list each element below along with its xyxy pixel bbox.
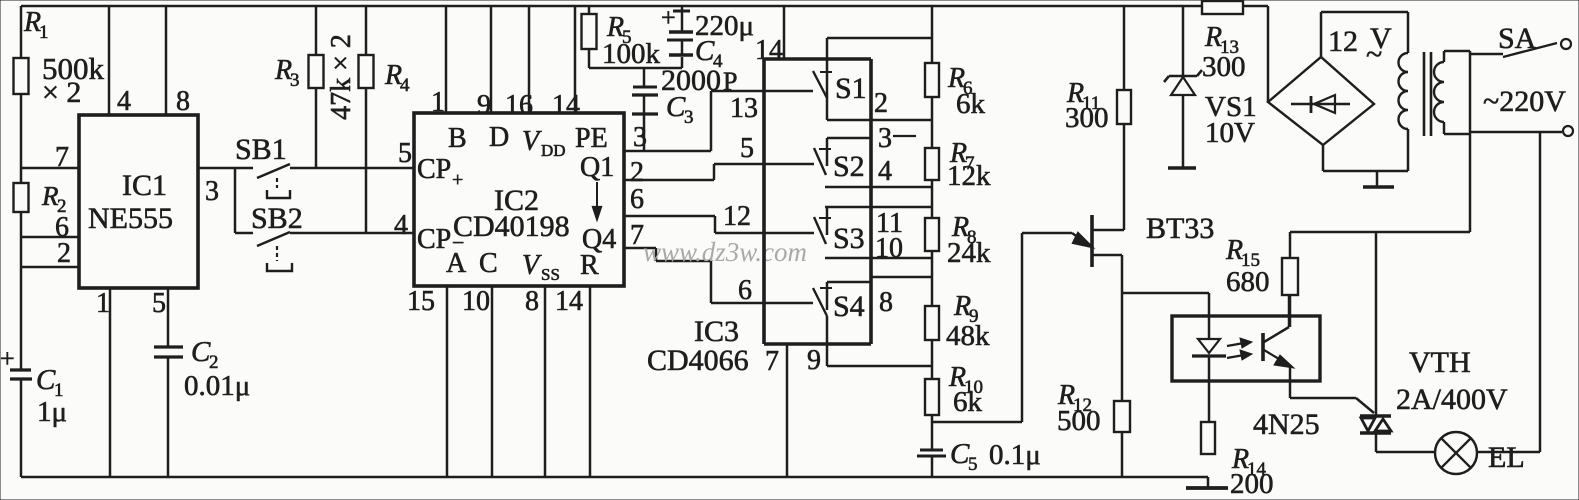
wire IC2 pin 2 Q1 to IC3 pin 5 (624, 164, 814, 180)
svg-text:CD40198: CD40198 (453, 210, 570, 243)
svg-text:5: 5 (740, 133, 754, 164)
ground below R14 (1207, 477, 1210, 487)
svg-text:2: 2 (57, 238, 71, 269)
wire R5/C4/C3 node (589, 67, 682, 70)
svg-text:10: 10 (462, 286, 490, 317)
resistor R11 (1123, 6, 1126, 230)
wire rail corner to bridge (1267, 6, 1270, 102)
svg-text:+: + (452, 169, 463, 191)
wire IC2 pin 16 (528, 6, 531, 113)
svg-text:47k × 2: 47k × 2 (326, 34, 357, 120)
svg-text:6k: 6k (956, 88, 986, 120)
resistor R8 (925, 218, 939, 251)
wire IC3 pin 7 ground (786, 344, 789, 477)
zener diode VS1 (1182, 6, 1185, 167)
wire IC1 pin 6 (21, 236, 79, 239)
svg-text:4N25: 4N25 (1253, 408, 1320, 441)
ground at bridge (1376, 171, 1379, 186)
svg-text:3: 3 (684, 107, 694, 128)
svg-text:www.dz3w.com: www.dz3w.com (643, 237, 807, 267)
svg-text:+: + (661, 3, 676, 32)
wire IC2 pin 15 (446, 286, 449, 477)
svg-text:1: 1 (39, 22, 49, 43)
arrow Q1 to Q4 (596, 182, 598, 212)
svg-text:16: 16 (505, 90, 533, 121)
svg-text:10V: 10V (1205, 117, 1255, 149)
svg-text:4: 4 (117, 86, 131, 117)
resistor R1 (14, 58, 29, 94)
wire IC2 pin 3 PE to IC3 pin 13 (624, 91, 813, 151)
svg-text:C: C (479, 248, 498, 279)
svg-text:2A/400V: 2A/400V (1396, 383, 1508, 416)
IC3 CD4066 box (764, 59, 871, 344)
svg-text:14: 14 (552, 90, 580, 121)
capacitor C2 (154, 345, 183, 348)
wire IC2 pin 7 Q4 to IC3 pin 6 (624, 248, 813, 303)
svg-text:+: + (0, 344, 15, 373)
wire IC1 pin 2 (21, 266, 79, 269)
svg-text:3: 3 (205, 176, 219, 207)
resistor R4 (365, 6, 368, 233)
switch S4 (827, 277, 931, 310)
svg-text:13: 13 (730, 93, 758, 124)
svg-text:~220V: ~220V (1483, 85, 1566, 118)
resistor R7 (925, 148, 939, 180)
bridge rectifier (1268, 57, 1374, 145)
transformer T secondary (1443, 51, 1446, 62)
wire BT33 B1 to optocoupler (1122, 292, 1209, 295)
svg-text:200: 200 (1230, 468, 1274, 500)
svg-text:8: 8 (525, 286, 539, 317)
svg-text:6k: 6k (953, 386, 983, 418)
IC1 NE555 box (79, 115, 198, 288)
triac VTH (1375, 232, 1378, 416)
svg-text:14: 14 (755, 35, 783, 66)
wire top +12V rail (21, 5, 1268, 8)
wire IC1 pin 1 (109, 288, 112, 477)
wire IC2 pin 1 (445, 6, 448, 113)
svg-text:S3: S3 (833, 222, 865, 255)
svg-text:VTH: VTH (1409, 346, 1471, 379)
LED inside 4N25 (1208, 293, 1211, 339)
svg-text:C: C (191, 336, 211, 368)
resistor R14 (1201, 422, 1215, 454)
wire IC1 pin 7 (21, 167, 79, 170)
svg-text:SS: SS (541, 265, 560, 284)
wire left vertical bus (20, 6, 23, 477)
transformer core (1424, 52, 1431, 136)
wire IC1 pin 5 (167, 288, 170, 477)
wire 4N25 emitter to VTH gate (1290, 398, 1374, 413)
svg-text:C: C (950, 438, 970, 470)
wire R10/C5 node to BT33 emitter (932, 233, 1072, 422)
svg-text:C: C (695, 35, 715, 67)
svg-text:48k: 48k (946, 320, 990, 352)
wire lamp to 220V line (1477, 451, 1540, 454)
terminal 220V circle (1563, 126, 1573, 136)
wire 220V down to lamp (1539, 132, 1542, 452)
resistor R10 (925, 379, 939, 415)
svg-text:SB1: SB1 (235, 133, 287, 166)
lamp EL (1435, 432, 1477, 474)
resistor R5 (588, 6, 591, 68)
svg-text:100k: 100k (602, 38, 661, 70)
svg-text:12k: 12k (947, 160, 991, 192)
wire IC3 pin 14 (783, 6, 786, 59)
svg-text:V: V (522, 250, 542, 281)
svg-text:4: 4 (400, 75, 410, 96)
capacitor C4 220u (681, 6, 684, 68)
svg-text:DD: DD (541, 141, 566, 160)
wire IC2 pin 8 (544, 286, 547, 477)
wire IC2 pin 9 (490, 6, 493, 113)
wire IC3 pin 9 (827, 344, 931, 366)
svg-text:CP: CP (417, 154, 451, 185)
svg-text:8: 8 (176, 86, 190, 117)
svg-text:IC1: IC1 (122, 169, 167, 202)
svg-text:5: 5 (152, 288, 166, 319)
svg-text:SB2: SB2 (251, 202, 303, 235)
wire resistor ladder vertical (931, 6, 934, 477)
svg-text:680: 680 (1226, 266, 1270, 298)
svg-text:3: 3 (633, 122, 647, 153)
wire IC1 pin 4 (108, 6, 111, 115)
svg-text:4: 4 (878, 156, 892, 187)
svg-text:SA: SA (1498, 22, 1537, 55)
wire IC2 pin 6 to IC3 pin 12 (624, 216, 814, 233)
switch S3 (825, 207, 931, 235)
ground below VS1 (1168, 166, 1196, 169)
svg-text:Q4: Q4 (582, 224, 616, 255)
svg-text:~: ~ (1366, 38, 1382, 71)
optocoupler 4N25 box (1172, 316, 1320, 381)
svg-text:CD4066: CD4066 (647, 344, 749, 377)
svg-text:0.01μ: 0.01μ (184, 370, 250, 402)
resistor R9 (925, 306, 939, 340)
svg-text:5: 5 (398, 138, 412, 169)
svg-text:14: 14 (555, 286, 583, 317)
wire 220V bottom terminal (1470, 131, 1562, 134)
capacitor C3 2000p (643, 68, 646, 151)
switch SA (1470, 53, 1503, 56)
svg-text:500: 500 (1057, 405, 1101, 437)
resistor R13 (1202, 1, 1243, 14)
svg-text:PE: PE (575, 123, 608, 154)
svg-text:24k: 24k (947, 237, 991, 269)
svg-text:C: C (36, 364, 56, 396)
IC2 CD40198 box (414, 113, 624, 286)
wire IC1 pin 8 (165, 6, 168, 115)
svg-text:1: 1 (431, 87, 445, 118)
svg-text:5: 5 (968, 454, 978, 475)
switch S2 (827, 138, 871, 166)
svg-text:NE555: NE555 (88, 202, 173, 235)
svg-text:EL: EL (1488, 441, 1525, 474)
wire bottom ground rail (21, 476, 1208, 479)
node pin3 junction vertical (234, 168, 237, 233)
svg-text:3: 3 (878, 123, 892, 154)
wire VTH to lamp (1376, 451, 1435, 454)
svg-text:4: 4 (394, 210, 408, 241)
resistor R6 (925, 63, 939, 97)
svg-text:12: 12 (723, 201, 751, 232)
svg-text:9: 9 (807, 345, 821, 376)
capacitor C5 (920, 449, 943, 452)
svg-text:7: 7 (765, 346, 779, 377)
svg-text:6: 6 (630, 184, 644, 215)
svg-text:0.1μ: 0.1μ (989, 439, 1041, 471)
svg-text:300: 300 (1202, 51, 1246, 83)
svg-text:B: B (448, 123, 467, 154)
svg-text:C: C (666, 91, 686, 123)
svg-text:12: 12 (1328, 25, 1358, 58)
svg-text:7: 7 (630, 220, 644, 251)
svg-text:Q1: Q1 (580, 152, 614, 183)
wire bridge bottom to transformer (1323, 145, 1408, 171)
resistor R2 (14, 183, 29, 212)
terminal SA circle (1561, 39, 1571, 49)
resistor R15 (1289, 232, 1292, 327)
light arrows (1227, 343, 1244, 346)
resistor R3 (315, 6, 318, 168)
svg-text:6: 6 (738, 275, 752, 306)
transformer T primary (1407, 12, 1410, 53)
resistor R12 (1121, 293, 1124, 477)
svg-text:8: 8 (879, 287, 893, 318)
phototransistor inside 4N25 (1261, 333, 1265, 361)
transistor BT33 (1090, 215, 1094, 267)
svg-text:S2: S2 (833, 150, 865, 183)
wire bridge top to transformer (1321, 12, 1408, 57)
svg-text:× 2: × 2 (42, 76, 81, 109)
svg-text:9: 9 (477, 90, 491, 121)
wire IC1 pin 3 output (198, 167, 253, 170)
svg-text:A: A (446, 248, 467, 279)
svg-text:7: 7 (55, 142, 69, 173)
wire secondary bottom to R15/VTH (1290, 231, 1470, 234)
capacitor C1 (10, 368, 31, 371)
svg-text:1μ: 1μ (37, 396, 67, 428)
svg-text:3: 3 (290, 70, 300, 91)
wire IC2 pin 10 (491, 286, 494, 477)
svg-text:15: 15 (407, 286, 435, 317)
svg-text:V: V (522, 126, 542, 157)
svg-text:D: D (489, 122, 509, 153)
svg-text:S1: S1 (835, 72, 867, 105)
switch S1 (826, 38, 829, 120)
svg-text:2: 2 (874, 88, 888, 119)
wire IC2 pin 14 bottom (589, 286, 592, 477)
svg-text:S4: S4 (833, 290, 865, 323)
svg-text:300: 300 (1065, 102, 1109, 134)
svg-text:10: 10 (875, 233, 903, 264)
svg-text:1: 1 (96, 288, 110, 319)
svg-text:BT33: BT33 (1146, 212, 1214, 245)
wire IC2 pin 14 top (574, 6, 577, 113)
